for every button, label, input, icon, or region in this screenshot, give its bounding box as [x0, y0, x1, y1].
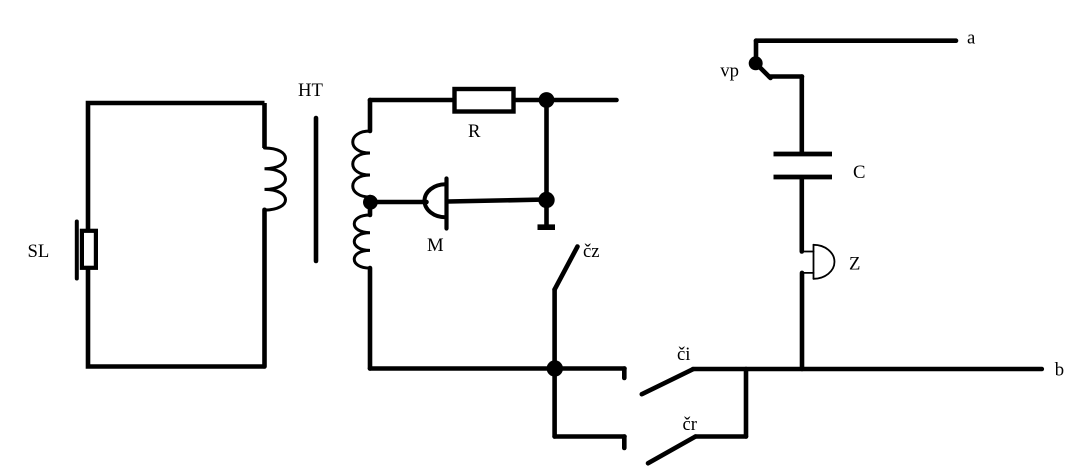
svg-text:C: C	[853, 162, 865, 183]
wire vp to capacitor	[799, 77, 804, 153]
switch čr blade	[648, 437, 696, 464]
wire middle bottom horizontal	[370, 366, 625, 371]
switch vp blade	[759, 66, 771, 78]
resistor R	[455, 89, 514, 112]
node top junction	[539, 92, 555, 108]
inductor primary winding	[265, 148, 286, 210]
wire secondary bottom vertical	[368, 268, 373, 369]
svg-text:a: a	[967, 28, 976, 49]
wire čr branch vertical	[744, 369, 749, 437]
wire left loop right vertical lower	[262, 210, 267, 367]
svg-text:b: b	[1055, 360, 1064, 381]
svg-text:čr: čr	[683, 414, 698, 435]
svg-text:R: R	[468, 121, 481, 142]
node lower junction	[538, 192, 554, 208]
svg-text:či: či	[677, 344, 691, 365]
wire buzzer to b line	[800, 273, 805, 369]
transformer core	[314, 118, 319, 261]
svg-text:vp: vp	[720, 61, 739, 82]
wire microphone to junction	[448, 200, 547, 202]
wire čr branch horizontal	[696, 434, 747, 439]
terminal stub	[544, 199, 549, 225]
svg-text:M: M	[427, 235, 444, 256]
wire node to microphone	[370, 200, 427, 205]
wire left loop right vertical upper	[262, 103, 267, 148]
wire a to vp	[754, 41, 759, 58]
contact tick lower	[622, 437, 627, 449]
wire b line	[693, 367, 1042, 372]
contact tick upper	[622, 369, 627, 379]
capacitor C	[774, 154, 833, 177]
fuse SL	[77, 222, 96, 279]
svg-text:HT: HT	[298, 80, 323, 101]
inductor secondary lower winding	[354, 215, 370, 268]
wire middle top horizontal	[370, 98, 453, 103]
wire vp horizontal	[769, 74, 802, 79]
node vp	[749, 56, 763, 70]
wire secondary middle segment	[368, 197, 373, 215]
wire lower branch horizontal	[555, 434, 625, 439]
wire resistor to end	[516, 98, 617, 103]
wire capacitor to buzzer	[799, 180, 804, 252]
inductor secondary upper winding	[353, 131, 370, 197]
wire a line	[756, 38, 956, 43]
switch čz	[555, 247, 578, 369]
wire secondary top vertical	[368, 100, 373, 131]
wire left loop top/left/bottom	[88, 103, 265, 367]
svg-text:čz: čz	[583, 241, 600, 262]
terminal bar	[538, 224, 556, 230]
node bottom junction	[547, 360, 563, 376]
svg-text:Z: Z	[849, 253, 860, 274]
buzzer Z	[801, 245, 834, 279]
node secondary tap	[363, 195, 378, 210]
wire junction vertical	[544, 100, 549, 199]
svg-text:SL: SL	[28, 241, 50, 262]
wire below node vertical	[552, 369, 557, 437]
switch či blade	[642, 369, 693, 394]
microphone M	[425, 179, 447, 229]
